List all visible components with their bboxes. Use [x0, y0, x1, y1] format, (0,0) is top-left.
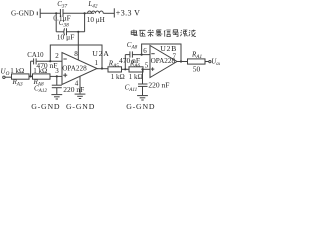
- node feedback junction at pin6: [141, 54, 143, 56]
- wire top rail from C37 to L42: [63, 12, 94, 14]
- svg-text:1 kΩ: 1 kΩ: [10, 67, 24, 75]
- node U2A output junction: [101, 67, 103, 69]
- wire +3.3V rail vertical down to C38 branch: [84, 13, 86, 32]
- ground symbol under CA11: [137, 96, 148, 100]
- svg-text:220 nF: 220 nF: [63, 85, 84, 94]
- resistor RA8: [33, 74, 51, 79]
- op-amp U2A: [62, 53, 97, 85]
- capacitor CA10 plates: [34, 58, 37, 64]
- svg-text:2: 2: [55, 52, 59, 60]
- svg-text:G-GND: G-GND: [66, 102, 95, 111]
- svg-text:7: 7: [173, 52, 177, 60]
- node A2 junction: [124, 68, 126, 70]
- capacitor C37 plates: [60, 9, 63, 17]
- svg-text:6: 6: [143, 47, 147, 55]
- resistor RA3: [12, 74, 30, 79]
- wire RA5 to RA6: [122, 68, 130, 70]
- wire C38 branch right lead: [67, 31, 85, 33]
- svg-text:1 kΩ: 1 kΩ: [129, 73, 143, 81]
- svg-text:G-GND: G-GND: [126, 102, 155, 111]
- wire C38 branch left vertical: [55, 13, 57, 32]
- wire CA10 left lead: [31, 60, 34, 62]
- node junction at C37 right / +3.3V rail: [84, 12, 86, 14]
- net label G-GND (top-left port): [11, 9, 40, 18]
- svg-text:1: 1: [95, 59, 99, 67]
- wire CA8 left lead: [125, 54, 130, 56]
- capacitor CA11 plates: [138, 84, 148, 86]
- wire CA12 to ground: [56, 88, 58, 94]
- svg-text:470 nF: 470 nF: [119, 56, 140, 65]
- wire CA10 right lead to pin 2: [36, 60, 62, 62]
- op-amp U2A minus sign: [63, 58, 66, 60]
- svg-text:50: 50: [193, 64, 201, 73]
- wire U2A output to RA5: [97, 68, 108, 70]
- op-amp U2B plus sign: [151, 67, 154, 70]
- wire U2A feedback loop: [50, 45, 102, 69]
- wire RA6 to pin5: [143, 68, 150, 70]
- node U2B output junction: [180, 60, 182, 62]
- node B junction (CA12 tap): [56, 75, 58, 77]
- wire CA10 branch vertical from node A: [30, 61, 32, 76]
- op-amp U2B minus sign: [151, 53, 154, 55]
- inductor L42 coil: [88, 11, 104, 13]
- svg-text:+3.3 V: +3.3 V: [116, 9, 141, 18]
- wire RA1 to output terminal: [205, 61, 209, 63]
- node feedback junction at pin2: [49, 60, 51, 62]
- svg-text:G-GND: G-GND: [11, 9, 34, 17]
- capacitor CA12 plates: [52, 85, 62, 88]
- wire L42 to +3.3V port: [103, 12, 114, 14]
- capacitor CA8 plates: [130, 51, 133, 57]
- svg-text:220 nF: 220 nF: [148, 81, 169, 90]
- wire U2B output to RA1: [177, 61, 188, 63]
- node junction pin8 rail on C38 branch: [77, 31, 79, 33]
- node A junction: [30, 75, 32, 77]
- svg-text:OPA228: OPA228: [62, 65, 87, 73]
- ground symbol under pin 4: [75, 94, 86, 98]
- svg-text:470 nF: 470 nF: [36, 61, 57, 70]
- node junction at C37 left: [55, 12, 57, 14]
- node B2 junction (CA11 tap): [141, 68, 143, 70]
- wire C38 branch left lead: [56, 31, 64, 33]
- power port +3.3V: [114, 8, 140, 17]
- wire Uo to RA3: [5, 76, 11, 78]
- op-amp U2B: [150, 46, 177, 78]
- wire pin 4 stub: [79, 77, 81, 94]
- op-amp U2A plus sign: [63, 73, 67, 77]
- wire RA8 to pin3: [50, 75, 62, 77]
- svg-text:8: 8: [74, 50, 78, 58]
- wire RA3 to RA8: [29, 75, 33, 77]
- svg-text:10 μF: 10 μF: [57, 32, 75, 41]
- title 电压采集信号滤波 (hand-drawn glyphs): [131, 30, 196, 37]
- svg-text:U2A: U2A: [92, 49, 109, 58]
- wire CA11 branch vertical: [142, 69, 144, 84]
- resistor RA1: [188, 59, 206, 64]
- input terminal Uo: [1, 68, 10, 79]
- svg-text:10 μH: 10 μH: [87, 16, 105, 24]
- wire CA8 branch vertical from node A2: [124, 55, 126, 70]
- svg-text:CA10: CA10: [27, 52, 44, 59]
- wire CA11 to ground: [142, 86, 144, 95]
- wire CA8 right lead to pin 6: [132, 54, 150, 56]
- resistor RA6: [129, 67, 143, 72]
- wire U2B feedback loop: [142, 44, 181, 62]
- capacitor C38 plates: [64, 28, 67, 35]
- wire CA12 branch vertical: [56, 76, 58, 85]
- wire top rail from G-GND port to C37: [40, 12, 60, 14]
- wire pin 8 stub down to U2A: [77, 32, 79, 60]
- svg-text:1 kΩ: 1 kΩ: [111, 73, 125, 81]
- output terminal Uad: [209, 57, 222, 67]
- ground symbol under CA12: [51, 95, 62, 99]
- svg-text:5: 5: [145, 62, 149, 70]
- svg-text:G-GND: G-GND: [31, 102, 60, 111]
- resistor RA5: [108, 67, 122, 72]
